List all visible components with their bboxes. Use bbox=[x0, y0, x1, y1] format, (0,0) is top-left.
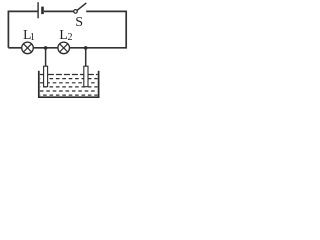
wire L1 to left bbox=[8, 47, 21, 49]
wire battery to switch bbox=[44, 10, 74, 12]
liquid hatch row 6 bbox=[40, 94, 98, 96]
beaker right wall bbox=[98, 71, 100, 98]
svg-text:S: S bbox=[75, 15, 83, 30]
beaker bottom bbox=[38, 96, 99, 98]
liquid hatch row 2 bbox=[40, 78, 98, 80]
lamp L1 bbox=[22, 42, 34, 54]
beaker left wall bbox=[38, 71, 40, 98]
svg-text:1: 1 bbox=[30, 32, 35, 43]
wire between lamps bbox=[34, 47, 58, 49]
liquid hatch row 3 bbox=[40, 82, 98, 84]
battery short thick plate bbox=[41, 7, 44, 15]
lamp L2 bbox=[58, 42, 70, 54]
wire down to left electrode bbox=[45, 48, 47, 67]
node junction left (dot) bbox=[44, 46, 48, 50]
liquid surface dashed line bbox=[40, 74, 98, 76]
node junction right (dot) bbox=[84, 46, 88, 50]
battery long plate bbox=[37, 2, 39, 18]
electrode left bbox=[44, 66, 48, 87]
svg-text:L: L bbox=[59, 27, 67, 42]
wire top-left segment bbox=[8, 11, 38, 47]
svg-text:2: 2 bbox=[68, 32, 73, 43]
switch blade bbox=[77, 3, 86, 10]
wire switch to top-right corner and down bbox=[70, 11, 127, 47]
electrode right bbox=[84, 66, 88, 87]
wire down to right electrode bbox=[85, 48, 87, 67]
liquid hatch row 4 bbox=[40, 86, 98, 88]
switch pivot circle bbox=[74, 10, 78, 14]
liquid hatch row 5 bbox=[40, 90, 98, 92]
